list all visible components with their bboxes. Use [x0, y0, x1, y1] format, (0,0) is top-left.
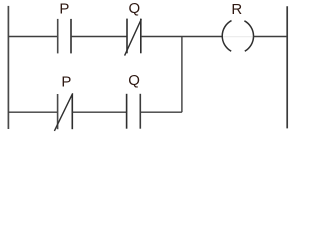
contact Q2 right bar: [139, 94, 141, 129]
svg-text:Q: Q: [129, 0, 141, 17]
wire rung2 P to Q: [72, 111, 126, 113]
contact Q1 left bar: [126, 19, 128, 54]
contact P2 left bar: [57, 94, 59, 129]
contact P2 right bar: [71, 94, 73, 129]
svg-text:Q: Q: [128, 72, 140, 89]
wire rung2 Q to junction: [140, 111, 182, 113]
wire rung1 P to Q: [71, 36, 127, 38]
contact Q2 left bar: [126, 94, 128, 129]
contact P1 right bar: [70, 19, 72, 54]
wire rung1 Q to coil: [141, 36, 222, 38]
coil R left arc: [222, 21, 231, 52]
faint line through coil: [223, 36, 253, 38]
wire rung2 rail to P: [8, 111, 57, 113]
contact P1 left bar: [57, 19, 59, 54]
svg-text:P: P: [61, 73, 71, 90]
svg-text:P: P: [59, 1, 69, 18]
wire rung1 rail to P: [8, 36, 57, 38]
wire rung1 coil to right rail: [253, 36, 287, 38]
junction wire rung1 to rung2: [181, 37, 183, 113]
coil R right arc: [244, 21, 253, 51]
right power rail: [286, 6, 288, 128]
contact Q1 right bar: [140, 19, 142, 54]
contact P2 NC slash: [54, 93, 72, 131]
contact Q1 NC slash: [125, 19, 142, 55]
svg-text:R: R: [231, 1, 242, 18]
left power rail: [7, 6, 9, 129]
